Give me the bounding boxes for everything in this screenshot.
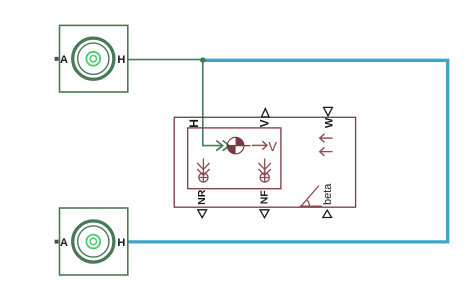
wheel W1 (top-left) <box>55 25 128 92</box>
wheel W2 outer ring <box>73 221 114 262</box>
chassis outer box <box>174 117 355 207</box>
svg-text:H: H <box>187 119 201 128</box>
svg-text:NF: NF <box>258 190 270 205</box>
wheel W2 hub inner <box>90 238 96 244</box>
svg-text:V: V <box>258 119 272 127</box>
wheel W1 outer ring <box>73 38 114 79</box>
wire: blue bus from node A to wheel2.H <box>128 60 448 242</box>
svg-text:V: V <box>268 139 277 154</box>
svg-text:A: A <box>60 237 68 249</box>
wheel W1 inner circle <box>78 43 109 74</box>
wheel W1 hub inner <box>90 56 96 62</box>
wheel W1 hub outer <box>86 52 100 66</box>
rotation arrows near W <box>320 134 333 156</box>
port W triangle (input, down) <box>324 107 333 116</box>
wheel W2 (bottom-left) <box>55 208 128 275</box>
node A junction dot <box>200 57 205 62</box>
chassis inner box <box>188 128 281 189</box>
angle symbol for beta <box>300 186 323 207</box>
port V triangle (output, up) <box>262 109 270 117</box>
port beta triangle (input, up) <box>323 210 332 217</box>
wire: green from node A down to chassis CoM <box>203 60 222 145</box>
chassis block U1 <box>174 107 355 217</box>
port NR triangle (output, down) <box>198 210 207 218</box>
wheel W1 box <box>60 25 128 92</box>
svg-text:H: H <box>117 237 125 249</box>
wheel W2 box <box>60 208 128 275</box>
svg-text:NR: NR <box>196 189 208 205</box>
force symbol NF (arrow into crossed circle) <box>259 159 271 183</box>
force symbol NR (arrow into crossed circle) <box>197 159 209 183</box>
wheel W2 flange connector square <box>55 240 59 244</box>
wheel W1 flange connector square <box>55 57 59 61</box>
velocity arrow ->V <box>252 141 267 149</box>
svg-text:W: W <box>323 117 335 128</box>
svg-text:H: H <box>117 54 125 66</box>
wire: green from wheel1.H to node A <box>128 59 203 61</box>
wheel W2 inner circle <box>78 226 109 257</box>
svg-text:beta: beta <box>322 183 334 205</box>
wheel W2 hub outer <box>86 235 100 249</box>
port NF triangle (output, down) <box>260 210 269 218</box>
CoM diameter line <box>227 145 251 147</box>
svg-text:A: A <box>60 54 68 66</box>
green double arrowheads at CoM <box>216 141 229 151</box>
center of mass symbol <box>227 137 244 154</box>
